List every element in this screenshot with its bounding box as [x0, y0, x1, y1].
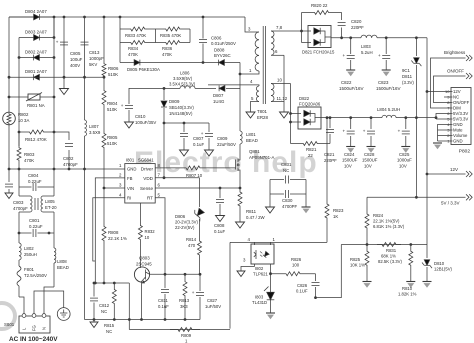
resistor R836: [156, 41, 191, 58]
ground T801 sec: [280, 112, 289, 118]
svg-text:6.81K 1% (3.3V): 6.81K 1% (3.3V): [373, 224, 405, 229]
wire R809 rail: [129, 329, 230, 331]
svg-text:1K: 1K: [333, 214, 338, 219]
resistor R832: [138, 203, 155, 267]
wire 12V rail top: [331, 36, 427, 39]
svg-text:L806: L806: [180, 71, 190, 76]
svg-text:+: +: [121, 103, 124, 108]
capacitor C821: [324, 118, 337, 163]
svg-text:NC: NC: [101, 309, 107, 314]
inductor L808: [54, 233, 69, 287]
transformer T801 aux: [208, 79, 259, 112]
resistor R833: [120, 27, 156, 38]
wire gate: [206, 167, 236, 169]
svg-text:2SC945: 2SC945: [136, 262, 152, 267]
capacitor C820: [338, 19, 365, 39]
svg-text:R811: R811: [246, 209, 257, 214]
svg-text:1uF/50V: 1uF/50V: [205, 304, 221, 309]
capacitor C825: [397, 118, 412, 169]
svg-text:10K 1%: 10K 1%: [350, 263, 365, 268]
svg-text:C813: C813: [89, 50, 100, 55]
svg-text:22-2V(5V): 22-2V(5V): [175, 225, 195, 230]
svg-text:L805: L805: [45, 199, 55, 204]
resistor R823: [325, 118, 344, 243]
diode D801: [8, 69, 48, 80]
resistor R820: [302, 3, 342, 31]
capacitor C807: [180, 123, 205, 156]
svg-text:RT: RT: [147, 196, 153, 201]
svg-text:0.1UF: 0.1UF: [296, 289, 308, 294]
wire EMI right column: [53, 169, 55, 196]
wire FG pin: [34, 291, 64, 314]
svg-text:D801 2A07: D801 2A07: [25, 69, 47, 74]
svg-text:C809: C809: [217, 136, 228, 141]
diode D809: [161, 87, 194, 123]
svg-text:C805: C805: [70, 51, 81, 56]
svg-text:FCQ20A06: FCQ20A06: [299, 102, 321, 107]
svg-text:AC IN 100~240V: AC IN 100~240V: [9, 336, 58, 343]
resistor R807: [180, 166, 206, 178]
ground P802: [433, 143, 442, 149]
wire Brightness: [431, 58, 466, 108]
svg-text:NC: NC: [283, 168, 289, 173]
svg-text:470K: 470K: [162, 52, 172, 57]
svg-text:ON/OFF: ON/OFF: [447, 69, 464, 74]
svg-text:510K: 510K: [107, 141, 117, 146]
wire pin6 down: [283, 55, 285, 112]
arrow Brightness: [466, 55, 472, 61]
capacitor C802: [63, 144, 78, 171]
svg-text:R803: R803: [24, 152, 35, 157]
resistor R815: [104, 282, 116, 334]
svg-text:20-2V(3.3V): 20-2V(3.3V): [175, 220, 198, 225]
svg-text:ET-20: ET-20: [45, 205, 57, 210]
svg-text:BEAD: BEAD: [57, 265, 69, 270]
label ON/OFF: [447, 69, 464, 74]
svg-text:TLP621: TLP621: [253, 272, 269, 277]
wire L pin: [19, 297, 24, 314]
svg-text:250uH: 250uH: [24, 252, 37, 257]
choke L805: [19, 196, 57, 212]
svg-text:Mute: Mute: [453, 128, 463, 133]
svg-text:R813: R813: [179, 298, 190, 303]
connector S801: [4, 314, 50, 333]
svg-text:GND: GND: [453, 122, 463, 127]
svg-text:Volume: Volume: [453, 133, 468, 138]
wire drain: [239, 74, 241, 131]
svg-text:1000pF: 1000pF: [89, 56, 104, 61]
svg-text:470: 470: [188, 243, 196, 248]
inductor L806: [145, 71, 216, 89]
wire 5V to pins: [435, 114, 451, 120]
wire fb rail: [341, 243, 427, 246]
ground C812: [90, 320, 98, 328]
svg-text:R807 10: R807 10: [186, 173, 203, 178]
capacitor C830: [270, 180, 306, 210]
svg-text:22: 22: [308, 153, 313, 158]
ground opto: [237, 271, 245, 277]
diode D822: [291, 96, 322, 129]
ground bridge: [60, 77, 69, 94]
svg-text:1000uF: 1000uF: [397, 158, 412, 163]
resistor R805: [102, 131, 118, 188]
svg-text:D803 2A07: D803 2A07: [25, 30, 47, 35]
svg-text:C830: C830: [282, 198, 293, 203]
svg-text:C803: C803: [13, 200, 24, 205]
resistor R809: [170, 328, 200, 343]
svg-text:N: N: [42, 327, 47, 330]
svg-text:68K 1%: 68K 1%: [381, 254, 396, 259]
svg-text:L807: L807: [89, 124, 99, 129]
wire rail B: [9, 76, 104, 79]
wire sec to D821: [300, 30, 303, 43]
optocoupler I802: [241, 237, 276, 277]
wire pin5 RT: [155, 198, 165, 275]
resistor R821: [291, 142, 331, 159]
svg-text:3.5X9: 3.5X9: [89, 130, 101, 135]
svg-text:VIN: VIN: [127, 186, 134, 191]
svg-text:L801: L801: [246, 132, 256, 137]
resistor R813: [179, 274, 190, 321]
svg-text:F801: F801: [24, 267, 34, 272]
capacitor C823: [376, 38, 401, 91]
svg-text:0.1uF: 0.1uF: [214, 229, 225, 234]
svg-text:0.47 / 2W: 0.47 / 2W: [246, 215, 265, 220]
wire pin9 NC: [444, 96, 451, 98]
op-amp I801: [119, 158, 160, 204]
svg-text:1U4G: 1U4G: [213, 99, 225, 104]
svg-text:510K: 510K: [107, 107, 117, 112]
svg-text:1500UF: 1500UF: [342, 158, 358, 163]
svg-text:R812 470K: R812 470K: [25, 137, 47, 142]
svg-text:+: +: [363, 128, 366, 133]
ground C830 left: [266, 207, 275, 213]
svg-text:R815: R815: [104, 323, 115, 328]
svg-text:Q803: Q803: [139, 256, 150, 261]
transformer core: [263, 26, 265, 104]
svg-text:470K: 470K: [24, 158, 34, 163]
resistor R814: [186, 237, 202, 274]
watermark text: [134, 146, 318, 179]
svg-text:11,12: 11,12: [277, 96, 288, 101]
shunt I803 TL431: [252, 274, 274, 313]
svg-text:22.1K 1%: 22.1K 1%: [108, 236, 127, 241]
svg-text:220PF: 220PF: [351, 25, 364, 30]
zener D811: [402, 38, 421, 118]
wire FB line: [94, 282, 129, 285]
svg-text:3.5X9(5V): 3.5X9(5V): [173, 76, 193, 81]
svg-text:I801: I801: [126, 158, 135, 163]
svg-text:GND: GND: [453, 139, 463, 144]
transistor Q801: [236, 144, 275, 188]
wire opto pin2 node: [269, 272, 272, 275]
wire EMI left column: [18, 169, 20, 196]
wire pin8 driver: [155, 167, 180, 169]
inductor L804: [377, 107, 400, 118]
capacitor C810: [121, 88, 157, 128]
svg-text:NC: NC: [106, 329, 112, 334]
diode D807: [213, 86, 240, 105]
resistor R825: [350, 245, 372, 288]
svg-text:12V: 12V: [450, 167, 458, 172]
svg-text:R825: R825: [350, 257, 361, 262]
svg-text:1.82K 1%: 1.82K 1%: [398, 292, 417, 297]
svg-text:+: +: [56, 39, 59, 44]
svg-text:C828: C828: [364, 152, 375, 157]
resistor R811: [236, 188, 266, 228]
svg-text:D811: D811: [402, 74, 413, 79]
label T801: [257, 109, 268, 120]
label AC IN: [9, 336, 58, 343]
svg-text:R836: R836: [162, 46, 173, 51]
capacitor C811: [158, 274, 169, 321]
earth terminal: [57, 308, 70, 321]
connector P802: [445, 88, 471, 155]
svg-text:C804: C804: [28, 173, 39, 178]
wire C802 branch: [54, 132, 69, 169]
resistor R831: [377, 243, 402, 265]
resistor R808: [102, 187, 127, 283]
svg-text:AP09N701-A: AP09N701-A: [249, 155, 274, 160]
capacitor C826: [296, 274, 320, 299]
wire fb to TL431: [316, 245, 341, 298]
svg-text:C812: C812: [99, 303, 110, 308]
svg-text:+: +: [192, 290, 195, 295]
svg-text:+: +: [398, 128, 401, 133]
ground T801 pin5: [246, 112, 255, 118]
svg-text:R835 470K: R835 470K: [160, 33, 181, 38]
svg-text:R806: R806: [108, 66, 119, 71]
svg-text:R834: R834: [128, 46, 139, 51]
wire snubber rail: [120, 62, 240, 64]
svg-text:12V: 12V: [453, 89, 461, 94]
watermark ring: [0, 303, 15, 329]
svg-text:R826: R826: [291, 257, 302, 262]
svg-text:C825: C825: [399, 152, 410, 157]
wire ON/OFF: [434, 76, 466, 103]
capacitor C803: [5, 169, 28, 211]
svg-text:FB: FB: [127, 176, 133, 181]
svg-text:Brightness: Brightness: [444, 50, 466, 55]
svg-text:100: 100: [292, 263, 300, 268]
capacitor C805: [56, 16, 83, 78]
svg-text:Sense: Sense: [140, 186, 153, 191]
fusible resistor R802: [3, 112, 30, 169]
wire pin7 VDD: [155, 176, 199, 179]
svg-text:R831: R831: [386, 248, 397, 253]
ground I803: [266, 313, 275, 319]
svg-text:C823: C823: [378, 80, 389, 85]
fuse F801: [17, 260, 47, 297]
capacitor C804: [19, 173, 54, 191]
svg-text:S801: S801: [4, 322, 15, 327]
svg-text:BYV26C: BYV26C: [214, 53, 231, 58]
wire emitter: [140, 288, 143, 321]
diode D808: [214, 48, 231, 66]
wire snubber left: [119, 16, 122, 63]
svg-text:ON/OFF: ON/OFF: [453, 100, 470, 105]
svg-text:4700PF: 4700PF: [282, 204, 298, 209]
zener D806: [175, 178, 206, 238]
svg-text:12B1(5V): 12B1(5V): [434, 267, 453, 272]
svg-text:ER28: ER28: [257, 115, 268, 120]
svg-text:R814: R814: [186, 237, 197, 242]
wire snubber right: [189, 29, 191, 43]
capacitor C824: [342, 118, 358, 169]
svg-text:GND: GND: [127, 166, 136, 171]
wire pin2 FB: [95, 178, 125, 283]
svg-text:1500uF/16V: 1500uF/16V: [339, 86, 364, 91]
arrow ON/OFF: [466, 73, 472, 79]
wire 5V rail: [321, 116, 436, 119]
capacitor C827: [192, 274, 221, 319]
svg-text:(3.3V): (3.3V): [402, 80, 414, 85]
svg-text:L803: L803: [361, 44, 371, 49]
svg-text:4700pF: 4700pF: [13, 206, 28, 211]
wire pin4 RI: [93, 198, 125, 261]
svg-text:22uF/50V: 22uF/50V: [217, 142, 236, 147]
svg-text:3K3: 3K3: [180, 304, 188, 309]
svg-text:100uF/35V: 100uF/35V: [135, 120, 156, 125]
svg-text:0.1uF: 0.1uF: [193, 142, 204, 147]
svg-text:3.5X4.5(3.3V): 3.5X4.5(3.3V): [169, 82, 196, 87]
svg-text:L808: L808: [57, 259, 67, 264]
svg-text:R810: R810: [402, 286, 413, 291]
svg-text:C807: C807: [193, 136, 204, 141]
svg-text:C810: C810: [135, 114, 146, 119]
svg-text:Driver: Driver: [141, 166, 154, 171]
diode D821: [302, 26, 336, 55]
inductor L802: [19, 233, 37, 260]
svg-text:I802: I802: [255, 266, 264, 271]
wire bottom rail: [85, 169, 201, 320]
wire pin3 VIN: [104, 187, 125, 189]
svg-text:10: 10: [277, 78, 282, 83]
svg-text:C802: C802: [63, 156, 74, 161]
svg-text:D805 P6KE130A: D805 P6KE130A: [127, 67, 160, 72]
svg-text:C826: C826: [297, 283, 308, 288]
transformer T801 primary: [239, 27, 259, 76]
svg-text:1500UF: 1500UF: [362, 158, 378, 163]
inductor L801: [240, 131, 258, 144]
inductor L807: [85, 77, 101, 169]
svg-text:C821: C821: [324, 152, 335, 157]
svg-text:5V/3.3V: 5V/3.3V: [453, 111, 468, 116]
svg-text:RI: RI: [127, 196, 131, 201]
svg-text:DIM: DIM: [453, 106, 461, 111]
resistor R835: [156, 27, 191, 38]
svg-text:5.2uH: 5.2uH: [361, 50, 373, 55]
svg-text:L802: L802: [24, 246, 34, 251]
capacitor C806: [199, 16, 236, 64]
svg-text:SB140(3.3V): SB140(3.3V): [169, 105, 194, 110]
capacitor C822: [339, 38, 364, 91]
svg-text:BEAD: BEAD: [246, 138, 258, 143]
svg-text:C801: C801: [29, 218, 40, 223]
svg-text:R820 22: R820 22: [311, 3, 328, 8]
svg-text:C811: C811: [158, 298, 168, 303]
svg-text:+: +: [343, 53, 346, 58]
svg-text:T801: T801: [257, 109, 267, 114]
wire column x19: [18, 38, 20, 147]
resistor R826: [271, 257, 316, 276]
svg-text:+: +: [378, 53, 381, 58]
wire pin6 sense: [155, 187, 241, 190]
svg-text:R833 470K: R833 470K: [125, 33, 146, 38]
wire 12V out: [427, 167, 466, 174]
svg-text:0.22uF: 0.22uF: [29, 224, 43, 229]
resistor R824: [365, 197, 416, 244]
svg-text:R821: R821: [306, 147, 317, 152]
svg-text:400V: 400V: [70, 63, 80, 68]
capacitor C828: [362, 118, 378, 169]
svg-text:220PF: 220PF: [324, 158, 337, 163]
svg-text:10V: 10V: [364, 163, 372, 168]
svg-text:0.01uF/250V: 0.01uF/250V: [211, 41, 236, 46]
svg-text:C831: C831: [281, 162, 292, 167]
resistor R803: [17, 132, 35, 170]
wire left column: [8, 17, 10, 112]
svg-text:470K: 470K: [128, 52, 138, 57]
inductor L803: [361, 35, 377, 55]
svg-text:FG: FG: [32, 325, 37, 331]
svg-text:100uF: 100uF: [70, 57, 83, 62]
svg-text:C806: C806: [211, 35, 222, 40]
wire pin10 down: [289, 84, 292, 144]
arrow 5V: [466, 194, 472, 200]
svg-text:SG6841: SG6841: [138, 158, 154, 163]
svg-text:C822: C822: [341, 80, 352, 85]
zener D810: [422, 245, 453, 288]
svg-text:R801 NA: R801 NA: [27, 103, 45, 108]
svg-text:0.1uF: 0.1uF: [158, 304, 169, 309]
wire base rail: [150, 273, 202, 276]
svg-text:Q801: Q801: [249, 149, 260, 154]
resistor R834: [120, 41, 156, 58]
wire snubber to pin1: [239, 63, 241, 75]
capacitor C808: [214, 188, 225, 234]
resistor R804: [102, 77, 118, 131]
diode D803: [19, 16, 55, 41]
diode D804: [9, 9, 54, 20]
capacitor C809: [201, 123, 236, 156]
arrow 12V: [466, 171, 472, 177]
wire VDD rail: [163, 122, 209, 125]
svg-text:0.22uF: 0.22uF: [28, 179, 42, 184]
svg-text:VDD: VDD: [143, 176, 153, 181]
svg-text:10V: 10V: [344, 163, 352, 168]
svg-text:4700pF: 4700pF: [63, 162, 78, 167]
svg-text:10V: 10V: [399, 163, 407, 168]
wire 12V vertical: [426, 38, 429, 245]
svg-text:D804 2A07: D804 2A07: [25, 9, 47, 14]
svg-text:5V/3.3V: 5V/3.3V: [453, 117, 468, 122]
wire rail A to transformer pin 3: [245, 17, 259, 32]
svg-text:R823: R823: [333, 208, 344, 213]
svg-text:9C1: 9C1: [402, 68, 411, 73]
resistor R806: [102, 16, 119, 79]
svg-text:R804: R804: [107, 101, 118, 106]
svg-text:T2.5A/250V: T2.5A/250V: [24, 273, 47, 278]
wire column x54: [53, 17, 56, 169]
svg-text:D822: D822: [299, 96, 310, 101]
wire opto rail: [230, 242, 327, 328]
svg-text:1N4148(5V): 1N4148(5V): [169, 111, 193, 116]
svg-text:+: +: [201, 131, 204, 136]
ground C830 right: [302, 207, 311, 213]
svg-text:510K: 510K: [108, 72, 118, 77]
svg-text:D821 FCH20A15: D821 FCH20A15: [302, 50, 335, 55]
